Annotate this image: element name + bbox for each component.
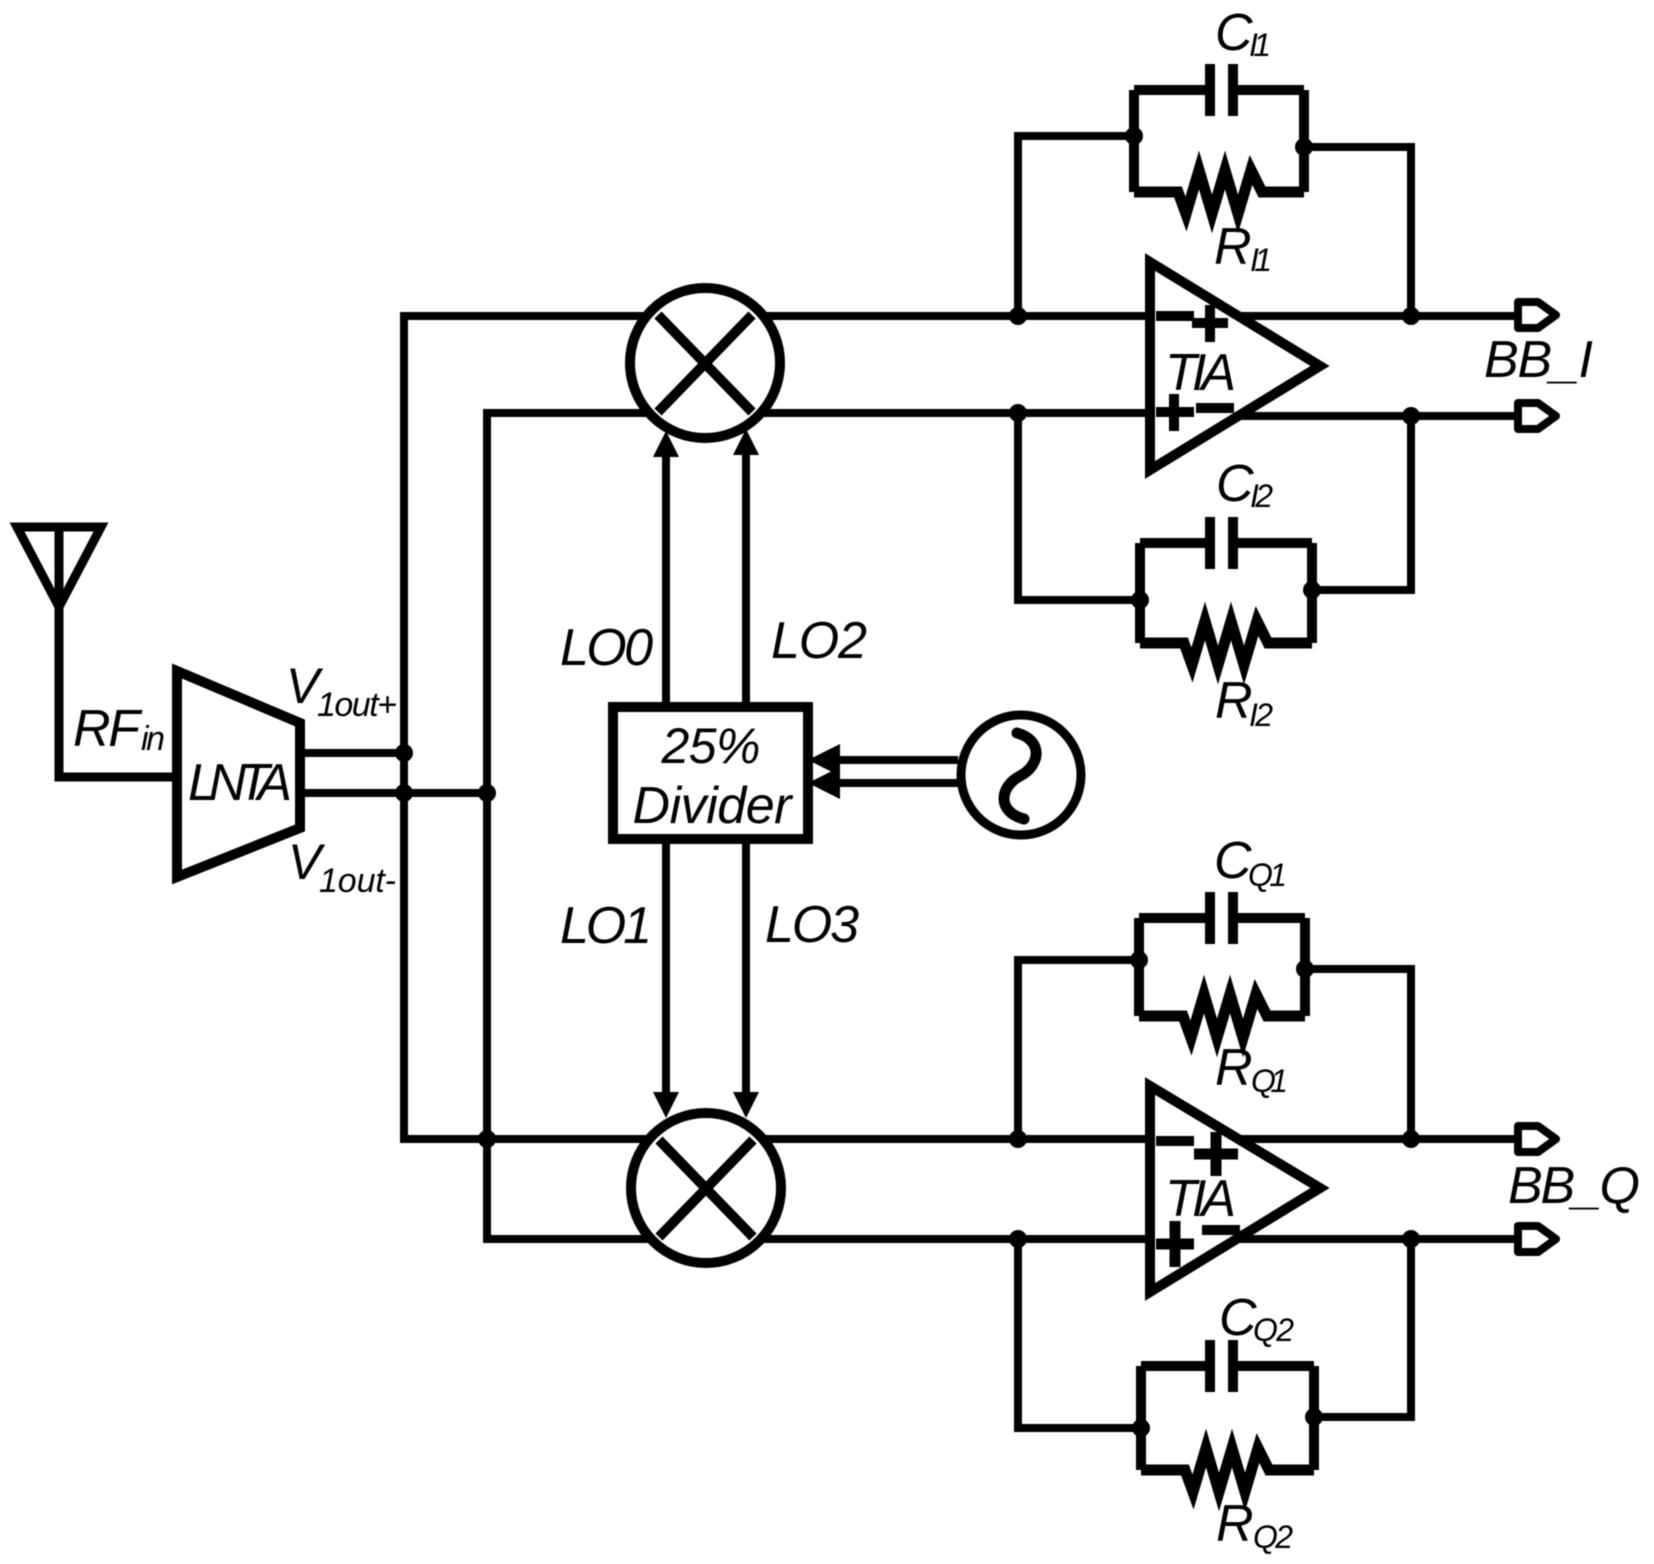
TIA I plus in- (1156, 394, 1194, 431)
arrowhead bus top (808, 744, 840, 776)
label V1out- (288, 834, 396, 900)
wire feedback tap Q- left (1018, 1239, 1141, 1428)
wire feedback Q+ right (1305, 969, 1411, 1139)
wire LO1 (662, 839, 670, 1096)
node out+ Q (1402, 1130, 1420, 1148)
node box CI1 left (1125, 127, 1143, 145)
wire V1out+ to mixer I RF input (404, 312, 1152, 320)
svg-text:1out+: 1out+ (317, 686, 397, 724)
box CI2 right side (1307, 543, 1317, 643)
svg-text:25%: 25% (661, 718, 761, 774)
label LO1 (560, 897, 652, 955)
capacitor CI1 (1134, 64, 1304, 116)
label CQ2 (1219, 1289, 1294, 1348)
resistor RI1 (1134, 170, 1304, 214)
box CI2 left side (1135, 543, 1145, 643)
capacitor CI2 (1140, 517, 1312, 569)
wire TIA I out- (1237, 412, 1514, 420)
box CQ2 right side (1309, 1366, 1319, 1470)
terminal BB_Q- (1518, 1226, 1556, 1252)
resistor RI2 (1140, 621, 1312, 665)
LO source sine (1004, 733, 1036, 819)
label CI2 (1216, 455, 1273, 514)
arrowhead LO0 (653, 431, 679, 457)
node out- Q (1402, 1230, 1420, 1248)
svg-text:1out-: 1out- (319, 862, 396, 900)
node tap Q- (1009, 1230, 1027, 1248)
mixer Q X (659, 1140, 753, 1237)
wire feedback tap I+ left (1018, 136, 1134, 316)
label BB_I (1484, 331, 1593, 389)
node out- I (1402, 407, 1420, 425)
TIA Q minus in- (1202, 1225, 1240, 1235)
node box CI2 left (1131, 591, 1149, 609)
svg-text:I1: I1 (1250, 242, 1272, 278)
svg-text:R: R (1215, 672, 1253, 730)
svg-text:LNTA: LNTA (188, 754, 292, 812)
wire TIA I out+ (1237, 312, 1514, 320)
box CQ2 left side (1136, 1366, 1146, 1470)
box CI1 right side (1299, 90, 1309, 192)
label Divider (633, 777, 795, 835)
svg-text:TIA: TIA (1165, 344, 1236, 402)
label V1out+ (286, 658, 397, 724)
node V1out- junction (478, 784, 496, 802)
label RFin (73, 700, 165, 758)
node out+ I (1402, 307, 1420, 325)
label RQ1 (1215, 1039, 1288, 1099)
wire LO2 (742, 453, 750, 707)
node box CI2 right (1303, 581, 1321, 599)
wire feedback tap I- left (1018, 413, 1140, 600)
label LO3 (765, 896, 859, 954)
svg-text:Divider: Divider (633, 777, 795, 835)
resistor RQ2 (1141, 1448, 1314, 1492)
box CI1 left side (1129, 90, 1139, 192)
wire V1out- to mixer I RF input (487, 409, 1152, 417)
svg-text:C: C (1215, 4, 1253, 62)
capacitor CQ1 (1139, 892, 1305, 944)
mixer I (630, 288, 780, 438)
svg-text:C: C (1219, 1289, 1257, 1347)
LNTA amplifier (177, 671, 300, 877)
wire feedback I- right (1312, 416, 1411, 590)
label RQ2 (1216, 1495, 1293, 1555)
wire V1out- to mixer Q RF input (487, 1235, 1152, 1243)
svg-text:BB_Q: BB_Q (1508, 1157, 1640, 1215)
label TIA I (1165, 344, 1236, 402)
svg-text:C: C (1216, 455, 1254, 513)
op-amp TIA Q (1150, 1086, 1320, 1292)
svg-text:LO1: LO1 (560, 897, 652, 955)
svg-text:R: R (1215, 1039, 1253, 1097)
LO source (961, 715, 1081, 835)
wire LO bus top (836, 756, 958, 764)
label TIA Q (1165, 1170, 1236, 1228)
svg-text:LO3: LO3 (765, 896, 859, 954)
node tap Q+ (1009, 1130, 1027, 1148)
antenna (17, 527, 101, 607)
svg-text:TIA: TIA (1165, 1170, 1236, 1228)
arrowhead bus bottom (808, 767, 840, 799)
wire feedback Q- right (1314, 1239, 1411, 1417)
label LO2 (771, 612, 867, 670)
label LO0 (560, 619, 653, 677)
arrowhead LO3 (733, 1092, 759, 1118)
label CQ1 (1214, 832, 1287, 893)
node crossing dot (395, 784, 413, 802)
terminal BB_I- (1518, 403, 1556, 429)
TIA I minus in+ (1156, 311, 1194, 321)
svg-text:in: in (141, 720, 165, 758)
arrowhead LO2 (733, 429, 759, 455)
wire feedback tap Q+ left (1018, 960, 1139, 1139)
label LNTA (188, 754, 292, 812)
wire V1out+ vertical rail (400, 312, 408, 1143)
label RI1 (1214, 218, 1272, 278)
label 25% (661, 718, 761, 774)
resistor RQ1 (1139, 994, 1305, 1038)
svg-text:R: R (1214, 218, 1252, 276)
TIA Q plus in+ (1194, 1132, 1238, 1176)
node box CQ1 right (1296, 960, 1314, 978)
node box CQ1 left (1130, 951, 1148, 969)
wire TIA Q out+ (1236, 1135, 1514, 1143)
wire TIA Q out- (1236, 1235, 1514, 1243)
TIA I plus in+ (1192, 305, 1228, 342)
wire LNTA out+ (300, 749, 404, 757)
svg-text:Q1: Q1 (1248, 857, 1287, 893)
terminal BB_Q+ (1518, 1126, 1556, 1152)
wire V1out- vertical rail (483, 409, 491, 1243)
wire LO0 (662, 455, 670, 707)
wire V1out+ to mixer Q RF input (404, 1135, 1152, 1143)
TIA Q plus in- (1156, 1221, 1194, 1267)
svg-text:Q2: Q2 (1253, 1519, 1293, 1555)
label BB_Q (1508, 1157, 1640, 1215)
svg-text:C: C (1214, 832, 1252, 890)
antenna stem wire (59, 529, 177, 777)
label RI2 (1215, 672, 1273, 733)
svg-text:I1: I1 (1249, 27, 1271, 63)
capacitor CQ2 (1141, 1340, 1314, 1392)
node tap I- (1009, 404, 1027, 422)
wire feedback I+ right (1304, 147, 1411, 316)
svg-text:Q2: Q2 (1253, 1312, 1294, 1348)
mixer Q (631, 1113, 781, 1263)
svg-text:RF: RF (73, 700, 143, 758)
divider box U1 (613, 707, 808, 839)
box CQ1 right side (1300, 918, 1310, 1016)
node box CQ2 left (1132, 1419, 1150, 1437)
TIA I minus in- (1196, 403, 1234, 413)
svg-text:I2: I2 (1250, 478, 1273, 514)
wire LNTA out- (300, 789, 487, 797)
TIA Q minus in+ (1156, 1136, 1194, 1146)
mixer I X (658, 315, 752, 412)
label CI1 (1215, 4, 1271, 63)
svg-text:Q1: Q1 (1251, 1063, 1288, 1099)
svg-text:I2: I2 (1249, 697, 1273, 733)
node box CQ2 right (1305, 1408, 1323, 1426)
wire LO bus bottom (836, 779, 958, 787)
node tap I+ (1009, 307, 1027, 325)
arrowhead LO1 (653, 1092, 679, 1118)
svg-text:R: R (1216, 1495, 1254, 1553)
op-amp TIA I (1150, 262, 1320, 470)
terminal BB_I+ (1518, 302, 1556, 328)
svg-text:BB_I: BB_I (1484, 331, 1593, 389)
node box CI1 right (1295, 138, 1313, 156)
wire LO3 (742, 839, 750, 1096)
node V1out+ junction (395, 744, 413, 762)
svg-text:LO0: LO0 (560, 619, 653, 677)
box CQ1 left side (1134, 918, 1144, 1016)
node crossing dot Q (478, 1130, 496, 1148)
svg-text:LO2: LO2 (771, 612, 867, 670)
